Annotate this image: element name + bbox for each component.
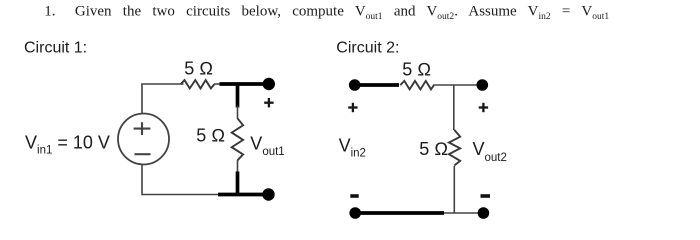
minus sign right circuit 2 bbox=[481, 194, 491, 198]
thick stub from top bar down bbox=[236, 83, 240, 108]
node bottom left terminal circuit 2 bbox=[349, 207, 361, 219]
svg-text:Given the two circuits below,: Given the two circuits below, compute Vo… bbox=[75, 3, 609, 22]
plus sign left circuit 2 bbox=[348, 103, 357, 112]
svg-text:Vout2: Vout2 bbox=[473, 139, 507, 164]
svg-text:5 Ω: 5 Ω bbox=[402, 60, 431, 80]
wire R4 to bottom rail bbox=[453, 166, 455, 213]
plus sign terminal circuit 1 bbox=[264, 98, 273, 107]
wire source bottom to rail bbox=[141, 164, 143, 195]
svg-text:Vin1 = 10 V: Vin1 = 10 V bbox=[25, 132, 110, 156]
title question text bbox=[44, 3, 609, 22]
svg-text:1.: 1. bbox=[44, 3, 55, 19]
minus sign left circuit 2 bbox=[350, 194, 358, 198]
wire stub to resistor R2 bbox=[237, 106, 239, 119]
wire top rail left bbox=[141, 83, 183, 85]
wire R3 to right node bbox=[433, 84, 478, 86]
svg-text:Circuit 1:: Circuit 1: bbox=[24, 40, 87, 57]
node top right terminal circuit 2 bbox=[477, 79, 489, 91]
thick wire bottom bar circuit 2 bbox=[356, 211, 444, 215]
thick wire top bar bbox=[220, 82, 265, 86]
resistor R1 5ohm horizontal bbox=[181, 80, 215, 88]
wire bottom rail right circuit 2 bbox=[444, 212, 479, 214]
svg-text:Circuit 2:: Circuit 2: bbox=[336, 40, 399, 57]
svg-text:Vout1: Vout1 bbox=[250, 133, 284, 158]
resistor R4 5ohm vertical circuit 2 bbox=[449, 130, 460, 166]
thick wire bottom bar bbox=[218, 193, 265, 197]
svg-text:Vin2: Vin2 bbox=[339, 135, 366, 159]
wire resistor to bar bbox=[214, 83, 221, 85]
node bottom terminal circuit 1 bbox=[262, 188, 274, 200]
resistor R2 5ohm vertical bbox=[232, 118, 243, 160]
svg-text:5 Ω: 5 Ω bbox=[196, 125, 225, 145]
resistor R3 5ohm horizontal circuit 2 bbox=[400, 81, 434, 90]
wire source top to rail bbox=[141, 84, 143, 114]
wire junction down to resistor R4 bbox=[453, 85, 455, 130]
svg-text:5 Ω: 5 Ω bbox=[184, 59, 213, 79]
svg-text:5 Ω: 5 Ω bbox=[419, 139, 448, 159]
plus sign right circuit 2 bbox=[479, 103, 488, 112]
thick stub bottom circuit 1 bbox=[236, 172, 240, 197]
wire bottom rail bbox=[142, 194, 220, 196]
node bottom right terminal circuit 2 bbox=[478, 207, 490, 219]
wire R2 to bottom stub bbox=[237, 160, 239, 173]
voltage source V1 (Vin1) circle bbox=[118, 114, 169, 165]
node top left terminal circuit 2 bbox=[349, 79, 361, 91]
node top terminal circuit 1 bbox=[263, 78, 275, 90]
thick wire from node to resistor R3 bbox=[356, 83, 399, 87]
